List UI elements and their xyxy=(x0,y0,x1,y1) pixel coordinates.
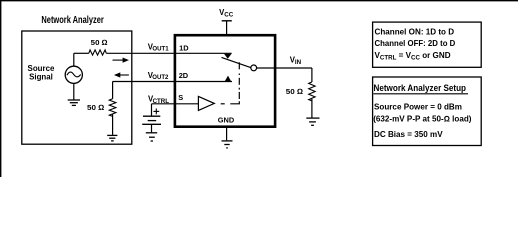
wire top rail left segment xyxy=(74,52,89,54)
info box 1 (channel states) xyxy=(373,22,482,67)
frame left border xyxy=(0,0,2,177)
wire source to ground xyxy=(73,83,75,99)
ground (IC GND) xyxy=(222,141,233,148)
buffer U1 control driver xyxy=(198,96,214,110)
ground (battery) xyxy=(146,133,157,141)
svg-text:GND: GND xyxy=(218,116,235,125)
switch common circle xyxy=(251,65,257,71)
control dash-dot line xyxy=(221,62,240,104)
frame top border xyxy=(0,0,518,2)
wire R3 to ground xyxy=(311,99,313,118)
ground (NA termination) xyxy=(107,135,117,141)
switch contact 1D arrowhead xyxy=(224,54,232,59)
ground (source) xyxy=(68,100,80,105)
wire 2D rail xyxy=(113,81,232,83)
arrow left (signal direction from 2D) xyxy=(119,74,129,76)
wire GND pin xyxy=(226,127,228,141)
svg-text:1D: 1D xyxy=(179,43,189,52)
resistor R2 50 ohm vertical (NA termination) xyxy=(109,99,116,117)
AC source sine wave xyxy=(67,72,81,77)
svg-text:Channel ON: 1D to D: Channel ON: 1D to D xyxy=(375,27,455,36)
arrow right (signal direction to 1D) xyxy=(113,59,124,61)
wire source to top rail xyxy=(73,53,75,66)
network analyzer box xyxy=(22,31,132,144)
wire R2 to ground xyxy=(112,114,114,134)
battery VCTRL plates xyxy=(142,116,161,124)
battery plus sign xyxy=(153,109,159,115)
resistor R3 50 ohm load xyxy=(309,82,315,101)
svg-text:Source: Source xyxy=(28,64,56,73)
svg-text:DC Bias = 350 mV: DC Bias = 350 mV xyxy=(374,130,443,139)
wire switch common to VIN node xyxy=(257,67,312,69)
resistor R1 50 ohm horizontal xyxy=(89,50,107,55)
svg-text:50 Ω: 50 Ω xyxy=(87,103,105,112)
svg-text:(632-mV P-P at 50-Ω load): (632-mV P-P at 50-Ω load) xyxy=(373,114,472,123)
svg-text:Network Analyzer: Network Analyzer xyxy=(41,15,104,26)
switch contact 2D arrowhead xyxy=(225,76,231,82)
wire VIN node down to load xyxy=(311,68,313,82)
IC box U1 xyxy=(175,35,275,127)
wire battery to ground xyxy=(151,124,153,132)
AC source circle xyxy=(65,66,82,83)
svg-text:Signal: Signal xyxy=(29,73,53,82)
wire top rail to 1D contact xyxy=(106,52,231,54)
svg-text:50 Ω: 50 Ω xyxy=(91,38,108,47)
svg-text:Channel OFF: 2D to D: Channel OFF: 2D to D xyxy=(375,39,456,48)
wire Vcc to IC xyxy=(226,21,228,35)
svg-text:2D: 2D xyxy=(179,71,189,80)
Vcc power bar xyxy=(222,20,232,22)
ground (load) xyxy=(306,118,319,125)
wire 2D corner down to load resistor xyxy=(112,82,114,99)
svg-text:Source Power = 0 dBm: Source Power = 0 dBm xyxy=(374,102,462,111)
wire VCTRL down to battery xyxy=(151,104,153,116)
info box 2 (network analyzer setup) xyxy=(373,77,482,146)
svg-text:Network Analyzer Setup: Network Analyzer Setup xyxy=(374,83,467,94)
switch pole (wiper) xyxy=(222,57,251,67)
svg-text:S: S xyxy=(178,93,183,102)
wire S / VCTRL xyxy=(152,103,199,105)
svg-text:50 Ω: 50 Ω xyxy=(286,87,304,96)
